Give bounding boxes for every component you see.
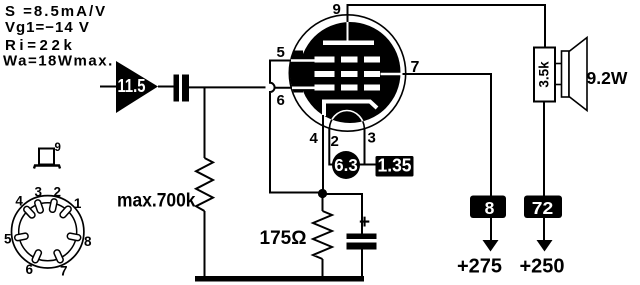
- tube V1 internal body: [290, 22, 401, 123]
- socket inner circle: [19, 203, 77, 261]
- current label 72: [524, 196, 562, 219]
- svg-text:Vg1=−14 V: Vg1=−14 V: [5, 19, 90, 36]
- svg-text:+250: +250: [520, 256, 565, 278]
- grid g2 dashes: [315, 71, 381, 77]
- wire triangle to capacitor: [158, 86, 174, 88]
- wire resistor to ground rail: [204, 211, 206, 278]
- svg-text:7: 7: [60, 264, 68, 279]
- svg-text:11.5: 11.5: [118, 76, 146, 96]
- grid lead pin5 inside: [291, 59, 317, 62]
- svg-text:3.5k: 3.5k: [537, 61, 552, 88]
- transformer primary 3.5k: [534, 48, 555, 102]
- loudspeaker: [555, 38, 587, 111]
- svg-text:4: 4: [310, 130, 319, 147]
- svg-text:Ri=22k: Ri=22k: [5, 37, 75, 54]
- svg-text:8: 8: [84, 234, 92, 249]
- svg-text:9: 9: [55, 142, 61, 154]
- svg-text:5: 5: [277, 44, 285, 61]
- capacitor cathode bypass: [347, 212, 377, 250]
- svg-text:5: 5: [4, 232, 12, 247]
- wire pin7 anode supply: [403, 74, 492, 240]
- svg-text:+: +: [359, 212, 370, 233]
- wire capacitor to ground rail: [361, 249, 363, 278]
- ground rail: [195, 276, 364, 282]
- socket pin slot 7: [53, 249, 64, 264]
- grid g1 dashes: [315, 85, 381, 91]
- top cap symbol pin 9: [34, 142, 61, 169]
- input sensitivity triangle 11.5: [116, 61, 158, 113]
- socket outer circle: [12, 196, 84, 268]
- socket pin slot 2: [49, 198, 58, 212]
- anode lead inside: [347, 22, 349, 41]
- current label 8: [470, 196, 506, 219]
- svg-text:72: 72: [532, 198, 554, 218]
- svg-text:3: 3: [368, 130, 376, 147]
- svg-text:3: 3: [34, 185, 42, 200]
- svg-text:2: 2: [331, 133, 339, 150]
- arrow +250: [537, 240, 553, 252]
- svg-text:9.2W: 9.2W: [587, 68, 628, 88]
- wire transformer down: [543, 102, 545, 241]
- anode plate: [323, 41, 374, 46]
- svg-text:8: 8: [485, 198, 495, 218]
- socket pin slot 3: [34, 199, 44, 214]
- wire pin5 to cathode node (with hop): [270, 61, 323, 193]
- grid lead pin7 inside: [381, 73, 401, 76]
- grid g3 dashes: [315, 57, 381, 63]
- coupling capacitor C1: [174, 75, 190, 102]
- arrow +275: [483, 240, 499, 252]
- svg-text:S =8.5mA/V: S =8.5mA/V: [5, 3, 107, 20]
- socket pin slot 8: [67, 233, 81, 241]
- svg-text:6: 6: [277, 92, 285, 109]
- svg-text:Wa=18Wmax.: Wa=18Wmax.: [3, 53, 114, 70]
- wire pin4 cathode down: [322, 115, 324, 194]
- heater voltage 6.3: [332, 151, 360, 179]
- wire grid-leak branch: [204, 87, 206, 158]
- tube V1 envelope: [289, 15, 405, 131]
- socket pin slot 1: [59, 205, 72, 219]
- wire heater circle to 1.35 box: [358, 164, 377, 166]
- resistor max.700k: [117, 158, 213, 212]
- resistor 175 ohm cathode: [260, 196, 333, 278]
- svg-text:6.3: 6.3: [334, 155, 358, 175]
- socket pin slot 5: [14, 233, 28, 241]
- wire junction to cathode capacitor: [323, 194, 363, 234]
- socket pin slot 4: [23, 205, 37, 219]
- svg-text:175Ω: 175Ω: [260, 228, 307, 249]
- heater arc: [329, 111, 364, 130]
- grid lead pin6 inside: [292, 87, 316, 90]
- heater current 1.35: [376, 156, 414, 177]
- svg-text:6: 6: [26, 262, 34, 277]
- socket pin slot 6: [31, 249, 42, 264]
- svg-text:1: 1: [74, 196, 82, 211]
- node cathode junction: [318, 189, 327, 198]
- svg-text:max.700k: max.700k: [117, 190, 196, 212]
- cathode: [324, 102, 377, 117]
- svg-text:2: 2: [53, 185, 61, 200]
- wire pin2 heater: [329, 128, 334, 165]
- wire capacitor to grid pin 6: [189, 86, 294, 88]
- wire input stub: [100, 86, 116, 88]
- svg-text:4: 4: [15, 194, 23, 209]
- wire pin3 heater: [364, 128, 366, 165]
- svg-text:1.35: 1.35: [378, 156, 412, 176]
- wire pin9 to output transformer: [348, 5, 546, 48]
- svg-text:+275: +275: [457, 256, 502, 278]
- svg-text:9: 9: [333, 1, 341, 18]
